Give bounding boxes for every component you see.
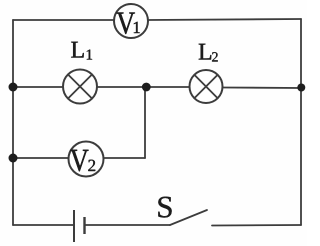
wire V2-branch right from V2 to connector: [104, 157, 145, 159]
node at left border / V2 branch: [9, 154, 18, 163]
wire middle-right from L2 to border: [223, 87, 301, 90]
wire bottom-right from switch to corner: [212, 224, 301, 227]
wire bottom from battery to switch: [85, 224, 170, 226]
wire top-left from corner to V1: [13, 19, 114, 21]
wire V2-branch left from border to V2: [13, 157, 68, 159]
voltmeter V1: [114, 4, 148, 38]
wire vertical connector from node to V2 branch: [144, 87, 146, 158]
lamp L1: [63, 70, 97, 104]
voltmeter V2: [69, 142, 104, 177]
lamp L2: [190, 70, 223, 103]
label L1: [71, 42, 92, 60]
wire middle between L1 and L2: [97, 86, 190, 88]
wire right border: [300, 19, 302, 225]
switch S blade: [170, 210, 207, 225]
wire middle-left from border to L1: [13, 86, 63, 88]
node at right border / middle wire: [297, 84, 305, 92]
label L2: [199, 44, 218, 62]
wire top-right from V1 to corner: [148, 19, 301, 20]
wire bottom-left from corner to battery: [13, 224, 73, 226]
wire left border: [12, 20, 14, 225]
label S: [158, 197, 171, 218]
battery B1: [74, 210, 85, 242]
node at left border / middle wire: [9, 83, 18, 92]
node at middle wire / connector: [142, 83, 151, 92]
